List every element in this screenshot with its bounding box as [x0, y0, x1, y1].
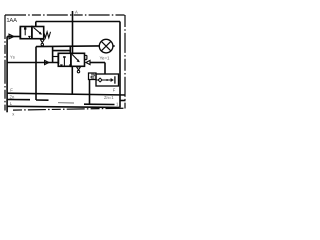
bus wire Y1 — [7, 93, 125, 95]
valve V1 pilot line — [7, 36, 20, 38]
bus wire Y2 segment 3 — [84, 103, 115, 105]
wire: pilot supply across valve2 top — [53, 50, 71, 52]
svg-text:Ys: Ys — [10, 55, 15, 60]
valve V1 left box bottom tick — [28, 36, 30, 38]
valve V1 exhaust — [40, 39, 44, 43]
svg-text:Ye=1: Ye=1 — [100, 56, 111, 61]
wire W2 top horizontal — [36, 21, 120, 23]
valve V1 flow arrow (diagonal) — [34, 28, 42, 35]
wire: valve1 top port stub — [35, 22, 37, 27]
valve V2 right bracket — [85, 55, 87, 59]
wire V1 vertical from node A down to valve 2 — [72, 22, 74, 54]
valve V2 flow arrow (diagonal) — [72, 54, 79, 62]
counter seat bar — [114, 76, 116, 83]
svg-text:A: A — [75, 10, 78, 15]
valve V1 body (3/2 way) — [20, 27, 32, 39]
valve V1 left port bar — [19, 28, 21, 40]
valve V1 pilot triangle — [9, 34, 14, 39]
valve V2 left bracket lower line — [53, 56, 59, 58]
valve V2 bottom port wire to bus — [71, 66, 73, 94]
valve V2 exhaust — [77, 67, 81, 70]
wire: right pilot down to counter — [104, 63, 106, 75]
valve V2 left pilot line — [7, 62, 58, 64]
indicator lamp — [99, 39, 113, 53]
valve V2 left box blocked symbol — [63, 57, 65, 67]
counter arrow — [111, 78, 114, 82]
bus wire Y2 segment 2 — [58, 102, 74, 104]
counter display box — [89, 73, 97, 80]
valve V1 spring — [44, 32, 51, 38]
wire V4 left vertical — [6, 37, 8, 113]
wire from counter display down to bus — [89, 80, 91, 105]
wire: valve2 top port stub — [69, 46, 71, 53]
node A stub (top) — [72, 11, 74, 22]
valve V2 left port bar — [57, 54, 59, 64]
valve V2 right pilot line — [90, 62, 105, 64]
wire W1 node A horizontal to lamp — [36, 45, 99, 48]
counter box — [96, 74, 119, 86]
counter display digit — [91, 74, 94, 78]
frame border (dash-dot) — [5, 15, 125, 111]
counter internals — [96, 79, 111, 81]
svg-text:Zn=1: Zn=1 — [104, 95, 114, 100]
valve V1 left box blocked symbol — [24, 27, 26, 35]
wire: left bracket spine — [52, 46, 54, 63]
valve V2 left box bottom tick — [60, 65, 62, 66]
valve V2 right pilot triangle — [86, 60, 90, 64]
svg-text:1AA: 1AA — [6, 18, 17, 24]
wire V3 vertical left of valve2 — [35, 47, 37, 100]
bus wire Y3 — [7, 106, 119, 107]
svg-text:F: F — [113, 88, 116, 93]
counter mid dot — [106, 79, 108, 81]
valve V2 bottom tick at divider — [69, 64, 71, 66]
valve V2 body (3/2 way impulse) — [58, 53, 71, 66]
bus wire Y2 segment 1 — [36, 99, 49, 101]
wire V2 right vertical — [119, 22, 121, 108]
lamp right stub — [113, 45, 115, 47]
svg-text:Zn: Zn — [10, 95, 16, 100]
counter diamond — [98, 78, 102, 82]
wire jog at right — [120, 100, 126, 102]
valve V2 left pilot triangle — [45, 60, 49, 64]
svg-text:F: F — [10, 88, 13, 93]
bus wire Y2 left stub — [7, 99, 30, 101]
